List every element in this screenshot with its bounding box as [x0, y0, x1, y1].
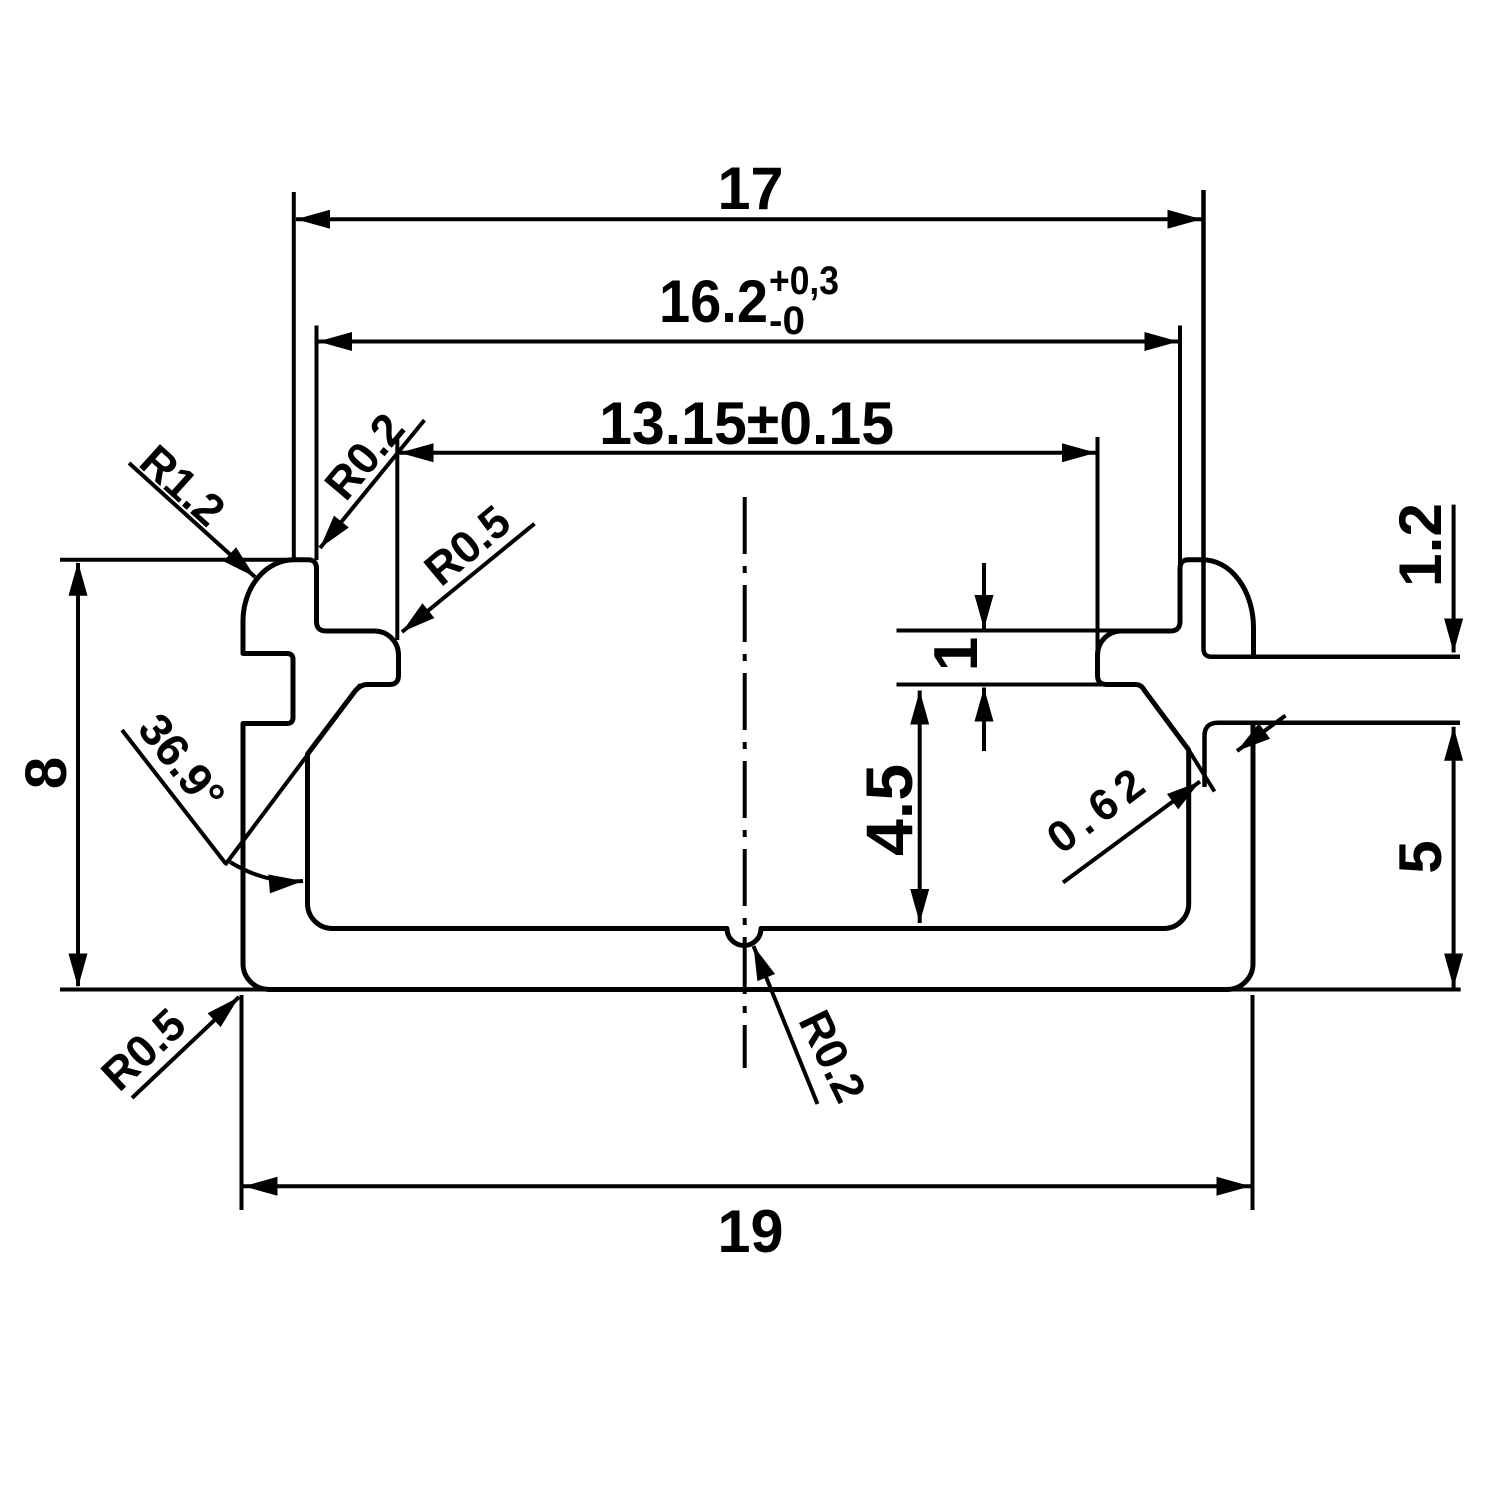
- baseline (bottom datum line): [60, 988, 1461, 992]
- dim 8 line: [76, 563, 80, 986]
- dim 13.15 extension right: [1096, 437, 1100, 651]
- dim 17 extension left: [292, 192, 296, 558]
- dim 16.2 extension right: [1178, 326, 1182, 567]
- leader 0.62 second: [1237, 716, 1286, 752]
- leader 0.62 main: [1063, 782, 1200, 883]
- svg-text:13.15±0.15: 13.15±0.15: [599, 390, 894, 457]
- svg-text:-0: -0: [769, 299, 805, 343]
- svg-text:19: 19: [718, 1198, 784, 1265]
- dim 1 upper arrow line: [982, 563, 986, 629]
- dim 19 extension right: [1251, 995, 1255, 1210]
- svg-text:1.2: 1.2: [1387, 503, 1454, 587]
- svg-text:5: 5: [1387, 840, 1454, 873]
- svg-text:4.5: 4.5: [852, 764, 926, 856]
- svg-text:16.2: 16.2: [659, 268, 768, 335]
- dim 1 extension lower: [897, 683, 1138, 687]
- dim 19 line: [244, 1184, 1251, 1188]
- angle 36.9 arc: [230, 862, 303, 881]
- angle 36.9 leg A: [122, 730, 226, 864]
- tab top edge with right 17-extension: [1204, 190, 1461, 657]
- dim 17 line: [296, 217, 1202, 221]
- dim 16.2 extension left: [315, 326, 319, 561]
- leader R0.2 bottom: [754, 946, 818, 1104]
- centerline: [743, 497, 747, 1068]
- svg-text:8: 8: [14, 757, 79, 789]
- svg-text:17: 17: [718, 155, 784, 222]
- angle 36.9 leg B (incline extension): [225, 684, 360, 865]
- dim 1 extension upper: [897, 629, 1122, 633]
- profile outline: [243, 560, 1254, 990]
- svg-text:1: 1: [922, 637, 991, 671]
- leader R0.5 top: [402, 524, 535, 632]
- tab bottom edge: [1205, 723, 1461, 787]
- dim 13.15 extension left: [395, 437, 399, 640]
- dim 8 top extension: [60, 558, 296, 562]
- leader R0.2 top: [320, 420, 424, 548]
- dim 1.2 line: [1452, 505, 1456, 653]
- leader R1.2: [129, 463, 255, 577]
- dim 5 line: [1452, 727, 1456, 988]
- dim 19 extension left: [240, 995, 244, 1210]
- svg-text:+0,3: +0,3: [769, 259, 839, 303]
- dim 13.15 line: [400, 451, 1097, 455]
- dim 4.5 line: [918, 691, 922, 924]
- leader R0.5 bottom: [132, 997, 239, 1098]
- dim 16.2 line: [318, 340, 1179, 344]
- dim 1 lower arrow line: [982, 688, 986, 752]
- incline extension for 0.62: [1189, 750, 1215, 792]
